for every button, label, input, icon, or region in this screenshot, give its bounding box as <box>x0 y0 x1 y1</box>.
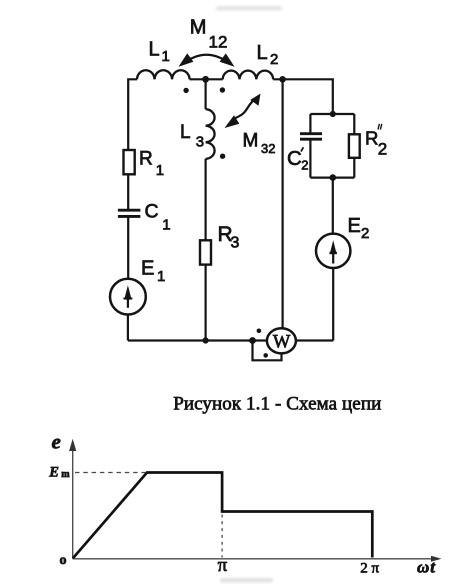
graph y-axis <box>69 439 76 559</box>
svg-text:E: E <box>348 215 361 237</box>
wire right rail to E2 <box>332 178 334 234</box>
junction dot wattmeter <box>249 337 256 344</box>
wire R1 to C1 <box>127 174 129 210</box>
wire L2 to top-right corner <box>273 79 333 114</box>
svg-text:E: E <box>141 258 154 280</box>
label R1 <box>139 149 164 180</box>
svg-text:ω: ω <box>417 558 429 577</box>
polarity dot of L3 <box>220 154 225 159</box>
label R3 <box>218 223 240 251</box>
wattmeter voltage-coil loop <box>253 341 282 361</box>
wire C2R2 block bottom <box>310 177 354 179</box>
label C2' <box>287 147 309 172</box>
junction node A dot <box>202 76 209 83</box>
polarity dot of L1 <box>183 88 188 93</box>
faint top smudge <box>216 6 282 11</box>
wire C1 to E1 <box>127 218 129 280</box>
wire node A to L3 <box>205 79 207 109</box>
graph label wt <box>417 558 436 577</box>
wire R2 branch upper <box>353 114 355 134</box>
label M32 <box>243 131 276 157</box>
svg-text:2: 2 <box>361 225 369 242</box>
svg-text:L: L <box>180 122 191 143</box>
graph dashed pi vertical <box>221 515 223 558</box>
resistor R1 <box>124 150 135 174</box>
label L3 <box>180 122 204 151</box>
inductor L2 <box>223 71 273 80</box>
wattmeter W <box>267 328 296 353</box>
label R2'' <box>365 124 387 159</box>
svg-text:1: 1 <box>157 268 165 285</box>
wire C2 branch lower <box>309 140 311 178</box>
mutual inductance arrow M32 <box>225 94 261 129</box>
svg-text:E: E <box>48 465 59 481</box>
label E2 <box>348 215 370 242</box>
resistor R2 <box>349 134 360 158</box>
wire R3 to bottom rail <box>205 265 207 341</box>
wire bottom rail <box>128 339 333 341</box>
svg-text:R: R <box>139 149 153 170</box>
svg-text:2: 2 <box>301 158 308 173</box>
capacitor C1 <box>118 210 140 216</box>
svg-text:1: 1 <box>162 216 170 233</box>
polarity dot of L2 <box>220 87 225 92</box>
capacitor C2' <box>300 134 322 140</box>
svg-text:C: C <box>145 201 159 223</box>
wattmeter terminal dot upper <box>257 329 262 334</box>
svg-text:L: L <box>257 42 268 64</box>
wire C2 branch upper <box>309 114 311 133</box>
junction dot block top <box>330 111 336 117</box>
inductor L1 <box>137 70 190 79</box>
wire node B drop to wattmeter <box>282 79 284 334</box>
svg-text:1: 1 <box>162 48 170 65</box>
junction node B dot <box>279 76 286 83</box>
svg-text:12: 12 <box>209 33 228 52</box>
svg-text:Рисунок 1.1 - Схема цепи: Рисунок 1.1 - Схема цепи <box>173 394 381 415</box>
label L1 <box>149 39 170 66</box>
svg-text:R: R <box>365 128 378 149</box>
svg-text:1: 1 <box>156 162 164 179</box>
wire L3 to R3 <box>205 159 207 241</box>
svg-text:M: M <box>243 131 259 152</box>
faint bottom smudge <box>220 578 273 583</box>
wire between L1 and L2 <box>190 78 223 80</box>
junction dot block bottom <box>330 174 337 181</box>
svg-text:2 π: 2 π <box>360 560 379 576</box>
wire E2 to bottom rail <box>332 268 334 341</box>
svg-text:32: 32 <box>261 141 275 156</box>
graph dashed Em level <box>75 472 145 474</box>
label M12 <box>190 17 228 52</box>
svg-text:2: 2 <box>270 51 278 68</box>
svg-text:C: C <box>287 148 302 170</box>
svg-text:π: π <box>218 555 228 576</box>
label L2 <box>257 42 279 68</box>
resistor R3 <box>200 240 211 264</box>
label C1 <box>145 201 171 234</box>
svg-text:M: M <box>190 17 207 39</box>
svg-text:W: W <box>273 333 291 353</box>
svg-text:2: 2 <box>378 139 387 158</box>
svg-text:3: 3 <box>196 134 204 151</box>
label E1 <box>141 258 165 286</box>
source E1 <box>110 279 146 315</box>
svg-text:m: m <box>61 469 70 480</box>
svg-text:L: L <box>149 39 160 61</box>
inductor L3 <box>206 109 215 159</box>
wire top-left corner <box>128 79 137 150</box>
junction dot bottom middle <box>203 337 209 343</box>
wattmeter terminal dot lower <box>263 353 268 358</box>
svg-text:e: e <box>52 429 61 453</box>
wire R2 branch lower <box>353 158 355 178</box>
wire E1 to bottom rail <box>127 314 129 341</box>
graph x-axis <box>73 556 442 562</box>
svg-text:o: o <box>60 553 67 568</box>
svg-text:3: 3 <box>231 235 240 252</box>
graph label Em <box>48 465 70 481</box>
mutual inductance arrow M12 <box>179 53 235 66</box>
wire C2R2 block top <box>310 113 354 115</box>
graph waveform e(wt) <box>73 473 372 559</box>
source E2 <box>316 234 350 268</box>
